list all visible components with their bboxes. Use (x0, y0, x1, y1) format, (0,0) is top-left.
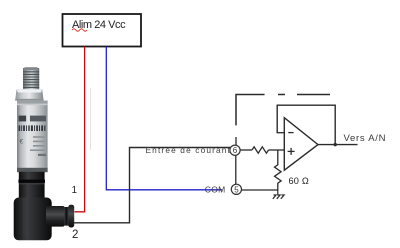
resistor R input (series) (252, 147, 269, 153)
upper label blocks (19, 116, 27, 122)
wire: terminal 6 to terminal 5 link (235, 156, 237, 185)
terminal 5 (COM) (231, 184, 241, 194)
wire: red supply + lead (Alim to sensor pin 1) (75, 47, 85, 212)
svg-text:60 Ω: 60 Ω (289, 176, 309, 186)
svg-text:Vers A/N: Vers A/N (344, 133, 387, 144)
faint photo edge (90, 88, 92, 150)
pressure sensor photo: hex nut (15, 89, 43, 100)
wire: resistor to op-amp + input (269, 149, 285, 151)
wire: terminal 6 to input resistor (240, 149, 252, 151)
pressure sensor photo: threaded stud (23, 67, 39, 89)
enclosure dashed boundary (top dashes) (278, 94, 285, 96)
svg-text:COM: COM (205, 185, 226, 195)
ground (273, 190, 284, 199)
svg-text:Entrée de courant: Entrée de courant (146, 145, 232, 155)
pressure sensor photo: cylindrical body with labels (17, 101, 48, 173)
pressure sensor photo: cable gland (46, 205, 74, 228)
svg-text:2: 2 (72, 229, 78, 241)
wire: terminal 5 to ground node (242, 189, 278, 191)
op-amp U1 (284, 118, 318, 171)
junction node at + input (277, 150, 279, 154)
svg-text:5: 5 (234, 185, 239, 194)
wire: inverting input stub (277, 132, 284, 134)
wire: black signal lead (sensor pin 2 to terminal 6) (74, 148, 231, 223)
power supply box Alim 24 Vcc (63, 14, 142, 47)
barcode band (19, 125, 46, 131)
pressure sensor photo: black DIN connector neck (18, 172, 45, 199)
wire: blue COM lead (Alim to terminal 5) (106, 47, 222, 190)
wire: op-amp output (318, 144, 358, 146)
enclosure dashed boundary (left side dash above terminal 6) (235, 137, 237, 145)
pressure sensor photo: right-angle connector body (14, 198, 52, 241)
terminal 6 (current input) (230, 145, 240, 155)
svg-text:6: 6 (233, 146, 238, 155)
enclosure dashed boundary (top-left corner bracket) (236, 95, 265, 126)
tiny spec text rows (30, 136, 46, 156)
junction node at output (334, 143, 337, 146)
wire: feedback loop (output to inverting input) (277, 105, 335, 144)
resistor 60 ohm (shunt) (275, 153, 282, 190)
svg-text:€: € (20, 139, 24, 146)
svg-text:1: 1 (72, 185, 78, 196)
